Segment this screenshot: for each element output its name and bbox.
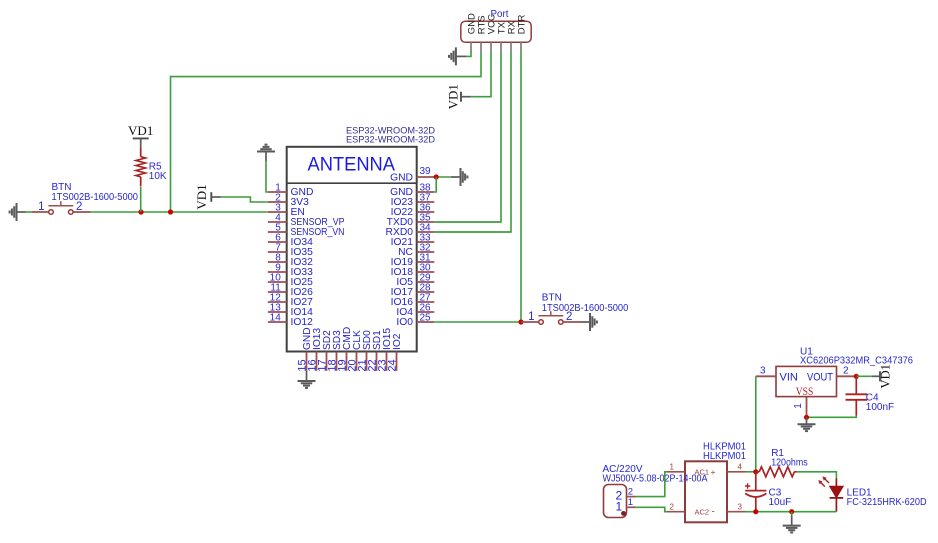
HLK pin name AC1 + xyxy=(695,467,716,477)
wire VOUT to VD1 xyxy=(856,375,872,377)
wire gray stub of top-left ground xyxy=(265,152,267,162)
svg-text:1: 1 xyxy=(38,201,44,213)
wire TXD0 to port xyxy=(434,221,501,223)
ESP32 pin 31 (IO19) xyxy=(391,253,435,269)
ESP32 pin 22 (SD1) xyxy=(367,330,383,372)
resistor R5 10K xyxy=(136,147,146,186)
wire HLK pin4 to node xyxy=(746,471,756,473)
wire BTN to EN pin xyxy=(91,211,268,213)
ESP32 pin 4 (SENSOR_VP) xyxy=(268,213,345,229)
module U2 ESP32-WROOM-32D body xyxy=(287,147,417,352)
svg-text:100nF: 100nF xyxy=(866,402,894,413)
ESP32 pin 19 (CMD) xyxy=(337,327,353,372)
ESP32 pin 11 (IO26) xyxy=(268,283,313,299)
U1 pin 3 stub xyxy=(756,365,776,376)
ESP32 pin 25 (IO0) xyxy=(396,313,434,329)
power flag VD1 (above R5) xyxy=(128,123,153,147)
ESP32 pin 8 (IO32) xyxy=(268,253,313,269)
ESP32 pin 3 (EN) xyxy=(268,203,305,219)
svg-text:VD1: VD1 xyxy=(446,84,461,109)
svg-text:10uF: 10uF xyxy=(769,497,792,508)
ESP32 pin 15 (GND) xyxy=(297,327,313,371)
ESP32 pin 14 (IO12) xyxy=(268,313,313,329)
svg-text:VD1: VD1 xyxy=(879,364,893,388)
ESP32 pin 26 (IO4) xyxy=(396,303,434,319)
ESP32 pin 1 (GND) xyxy=(268,183,314,199)
ESP32 pin 18 (SD3) xyxy=(327,330,343,372)
ESP32 pin 23 (IO15) xyxy=(377,328,393,372)
ESP32 pin 21 (SD0) xyxy=(357,330,373,372)
svg-text:IO0: IO0 xyxy=(396,317,413,328)
ESP32 pin 9 (IO33) xyxy=(268,263,313,279)
svg-text:ESP32-WROOM-32D: ESP32-WROOM-32D xyxy=(346,134,435,145)
svg-text:VD1: VD1 xyxy=(128,123,153,138)
junction node at RTS column xyxy=(168,209,173,214)
svg-text:3: 3 xyxy=(760,365,766,376)
Port pin RTS xyxy=(477,15,488,52)
wire pin39 to junction xyxy=(434,176,451,178)
Port pin RX xyxy=(507,20,518,52)
ESP32 pin 33 (IO21) xyxy=(391,233,435,249)
ESP32 pin 7 (IO35) xyxy=(268,243,313,259)
svg-text:25: 25 xyxy=(420,313,432,324)
svg-text:WJ500V-5.08-02P-14-00A: WJ500V-5.08-02P-14-00A xyxy=(603,473,708,484)
wire Port VCC to VD1 xyxy=(471,52,491,97)
svg-text:GND: GND xyxy=(390,172,413,183)
connector Port (6-pin header) xyxy=(461,21,531,42)
wire IO0 to BTN2 xyxy=(434,321,521,323)
wire Port TX to RXD0-column xyxy=(434,52,501,222)
connector pin 2 stub xyxy=(627,486,636,497)
svg-text:BTN: BTN xyxy=(542,293,562,304)
module HLKPM01 body xyxy=(685,461,727,522)
junction node HLK pin4 / R1 / C3 / VIN xyxy=(753,469,758,474)
U1 pin 2 stub xyxy=(837,365,857,376)
LED arrows xyxy=(818,476,829,486)
Port pin VCC xyxy=(487,14,498,52)
junction node IO0/DTR/BTN xyxy=(518,319,523,324)
ground (U1 VSS) xyxy=(798,424,816,431)
wire Port RTS to EN net xyxy=(171,52,482,212)
ESP32 pin 30 (IO18) xyxy=(391,263,435,279)
HLK pin name AC2 - xyxy=(695,507,715,518)
wire HLK pin3 to node xyxy=(746,511,756,513)
ground (ESP32 top-left) xyxy=(257,145,275,152)
ESP32 pin 13 (IO14) xyxy=(268,303,313,319)
ESP32 pin 37 (IO23) xyxy=(391,193,435,209)
push button BTN (1TS002B-1600-5000) right xyxy=(521,311,581,324)
wire gray stub VSS ground xyxy=(806,417,808,424)
junction node VSS xyxy=(804,415,809,420)
ESP32 pin 27 (IO16) xyxy=(391,293,435,309)
svg-text:IO2: IO2 xyxy=(392,333,403,350)
svg-text:FC-3215HRK-620D: FC-3215HRK-620D xyxy=(847,497,927,508)
svg-text:AC2: AC2 xyxy=(695,507,710,516)
ESP32 pin 5 (SENSOR_VN) xyxy=(268,223,345,239)
wire bottom rail xyxy=(756,511,837,513)
junction node pin39 xyxy=(434,174,439,179)
Port pin TX xyxy=(497,21,508,52)
svg-text:2: 2 xyxy=(628,486,633,497)
wire gray stub to right ground xyxy=(451,176,461,178)
svg-text:ANTENNA: ANTENNA xyxy=(308,154,396,176)
capacitor C4 100nF xyxy=(846,376,868,415)
HLK pin 3 stub xyxy=(727,502,746,511)
wire gray stub pin15 ground xyxy=(306,371,308,381)
junction node ground tap xyxy=(789,509,794,514)
wire RXD0 to port xyxy=(434,231,511,233)
svg-text:HLKPM01: HLKPM01 xyxy=(703,451,746,462)
wire C4 bottom to VSS node xyxy=(807,416,857,418)
svg-text:1: 1 xyxy=(793,403,804,409)
push button BTN (1TS002B-1600-5000) left xyxy=(32,201,91,214)
junction node VOUT xyxy=(854,374,859,379)
ESP32 pin 32 (NC) xyxy=(398,243,434,259)
wire ground to ESP32 pin1 GND xyxy=(266,161,268,192)
ESP32 pin 35 (TXD0) xyxy=(387,213,435,229)
svg-text:1: 1 xyxy=(528,311,534,323)
svg-text:DTR: DTR xyxy=(517,15,528,35)
power flag VD1 (at VOUT) xyxy=(872,364,893,388)
svg-text:14: 14 xyxy=(270,313,282,324)
svg-text:XC6206P332MR_C347376: XC6206P332MR_C347376 xyxy=(800,355,913,366)
wire Port RX to TXD0-column xyxy=(434,52,511,232)
ESP32 pin 17 (SD2) xyxy=(317,330,333,372)
power flag VD1 (top, for Port VCC) xyxy=(446,84,471,109)
svg-text:VOUT: VOUT xyxy=(807,371,833,383)
ESP32 pin 29 (IO5) xyxy=(396,273,434,289)
wire gray stub BTN2 ground xyxy=(581,321,591,323)
svg-text:4: 4 xyxy=(738,462,743,471)
wire VD1 to 3V3 pin xyxy=(221,197,268,202)
wire gray stub bottom ground xyxy=(791,516,793,526)
wire VIN column down to HLK pin4 node xyxy=(755,376,757,472)
ground (right BTN) xyxy=(590,313,597,331)
svg-text:2: 2 xyxy=(843,365,849,376)
ESP32 pin 16 (IO13) xyxy=(307,328,323,372)
ESP32 pin 38 (GND) xyxy=(390,183,434,199)
ESP32 pin 2 (3V3) xyxy=(268,193,309,209)
ESP32 pin 36 (IO22) xyxy=(391,203,435,219)
wire R1 to LED top xyxy=(797,472,837,479)
antenna section separator line xyxy=(287,182,417,184)
ground (left of BTN) xyxy=(10,203,17,221)
svg-text:3: 3 xyxy=(738,502,743,511)
wire junction down to pin38 xyxy=(434,177,436,192)
capacitor C3 10uF polarized xyxy=(745,472,767,512)
ESP32 pin 24 (IO2) xyxy=(387,333,403,371)
Port pin DTR xyxy=(517,15,528,52)
HLK pin 2 stub xyxy=(667,502,685,511)
svg-text:1: 1 xyxy=(616,499,623,513)
svg-text:IO12: IO12 xyxy=(291,317,314,328)
wire Port GND to ground xyxy=(466,52,471,57)
ESP32 pin 20 (CLK) xyxy=(347,330,363,372)
ESP32 pin 12 (IO27) xyxy=(268,293,313,309)
HLK pin 4 stub xyxy=(727,462,746,471)
wire gray stub from ground xyxy=(17,211,26,213)
regulator U1 XC6206P332MR body xyxy=(776,366,837,396)
ESP32 pin 39 (GND antenna) xyxy=(390,166,434,184)
resistor R1 120ohms xyxy=(756,467,797,477)
ESP32 pin 6 (IO34) xyxy=(268,233,313,249)
svg-text:24: 24 xyxy=(387,359,399,371)
junction node at R5 bottom xyxy=(138,209,143,214)
connector AC/220V (WJ500V) body xyxy=(604,485,627,518)
LED LED1 FC-3215HRK-620D xyxy=(830,479,844,512)
power flag VD1 (at ESP32 3V3) xyxy=(194,184,221,209)
ESP32 pin 34 (RXD0) xyxy=(386,223,435,239)
ESP32 pin 28 (IO17) xyxy=(391,283,435,299)
wire connector pin2 to HLK pin1 xyxy=(636,472,668,497)
svg-text:2: 2 xyxy=(670,502,675,511)
HLK pin 1 stub xyxy=(667,462,685,471)
svg-text:1: 1 xyxy=(628,497,633,508)
svg-text:10K: 10K xyxy=(149,171,167,182)
Port pin GND xyxy=(467,13,478,52)
svg-text:39: 39 xyxy=(420,166,432,177)
svg-text:-: - xyxy=(712,507,715,518)
connector pin 1 stub xyxy=(627,497,636,508)
wire green stub to ground xyxy=(791,512,793,516)
wire connector pin1 to HLK pin2 xyxy=(636,507,668,511)
polarity dot on connector xyxy=(621,511,626,516)
ground (ESP32 pin15 GND) xyxy=(298,381,316,388)
svg-text:1TS002B-1600-5000: 1TS002B-1600-5000 xyxy=(52,192,139,203)
wire R5 to EN net xyxy=(140,187,142,212)
ground (bottom rail) xyxy=(783,526,801,533)
svg-text:+: + xyxy=(711,467,716,477)
ground (ESP32 pin39) xyxy=(461,168,468,186)
svg-text:120ohms: 120ohms xyxy=(771,457,808,468)
U1 pin 1 stub (VSS) xyxy=(793,397,806,418)
junction node C3 bottom xyxy=(753,509,758,514)
svg-text:VSS: VSS xyxy=(796,386,814,398)
ESP32 pin 10 (IO25) xyxy=(268,273,313,289)
svg-text:1: 1 xyxy=(670,462,675,471)
svg-text:1TS002B-1600-5000: 1TS002B-1600-5000 xyxy=(542,303,629,314)
wire gray ground stub xyxy=(456,55,466,57)
ground (port GND) xyxy=(449,47,456,65)
svg-text:VD1: VD1 xyxy=(194,184,209,209)
svg-text:VIN: VIN xyxy=(780,371,798,383)
wire Port DTR down to IO0 net xyxy=(520,52,522,322)
wire green to BTN pin1 xyxy=(26,211,33,213)
